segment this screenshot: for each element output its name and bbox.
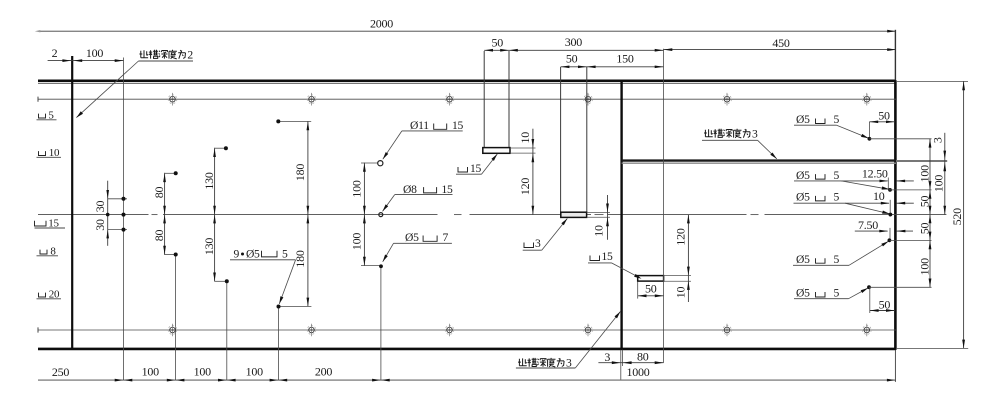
chain outer line: [944, 133, 946, 215]
svg-text:50: 50: [878, 109, 890, 123]
svg-text:15: 15: [48, 217, 59, 229]
svg-text:100: 100: [350, 233, 364, 251]
svg-text:5: 5: [254, 248, 260, 261]
hole T1 (top row): [170, 96, 176, 102]
svg-text:130: 130: [202, 172, 216, 190]
svg-text:5: 5: [834, 169, 840, 182]
dim 12.50 outside arrow: [896, 180, 914, 182]
leader R3: [845, 203, 890, 214]
hole RD tick: [889, 228, 891, 239]
svg-text:50: 50: [918, 196, 932, 208]
leader cn depth2: [76, 61, 138, 118]
note cn slot depth 3 (bottom): [518, 358, 527, 365]
leader R4: [849, 241, 889, 265]
dim 10 outside arrow: [896, 202, 913, 204]
svg-text:Ø11: Ø11: [410, 119, 429, 132]
label depth15 slot C: [590, 256, 600, 261]
hole B3 (bottom row): [447, 327, 453, 333]
horizontal centerline (dash-dot): [38, 214, 149, 216]
svg-text:250: 250: [52, 365, 70, 379]
svg-text:15: 15: [470, 162, 482, 175]
svg-text:100: 100: [918, 258, 932, 276]
dim 100/100 stubs: [361, 162, 378, 164]
leader R2: [841, 181, 889, 189]
svg-text:Ø5: Ø5: [796, 287, 810, 300]
svg-text:Ø5: Ø5: [796, 191, 810, 204]
hole B4 (bottom row): [585, 327, 591, 333]
part outline: top edge (thick): [38, 80, 896, 83]
slot B bottom bar: [561, 212, 587, 217]
note cn slot depth 2: [139, 50, 148, 57]
svg-text:15: 15: [452, 119, 464, 132]
hole RA line: [869, 138, 931, 140]
hole P8 (-180): [277, 305, 281, 309]
svg-text:150: 150: [616, 51, 634, 65]
svg-text:100: 100: [142, 365, 160, 379]
hole B6 (bottom row): [864, 327, 870, 333]
extension line x=123.5 (full height): [123, 58, 125, 381]
svg-text:Ø5: Ø5: [796, 253, 810, 266]
svg-text:2: 2: [187, 49, 193, 62]
hole T3 (top row): [447, 96, 453, 102]
svg-text:15: 15: [442, 183, 454, 196]
note cn groove depth 3 (right): [704, 129, 713, 136]
dim 30/30 stubs: [108, 198, 127, 200]
dim 50 top-right line: [869, 121, 894, 123]
svg-text:80: 80: [637, 349, 649, 363]
dim 180/180 stubs: [278, 120, 311, 122]
hole T2 (top row): [309, 96, 315, 102]
svg-text:80: 80: [152, 230, 166, 242]
svg-text:5: 5: [834, 113, 840, 126]
label depth 20: [39, 293, 46, 297]
part outline: bottom edge (thick): [38, 348, 896, 351]
right edge extension below part: [894, 350, 896, 382]
hole P7 (+180): [276, 119, 280, 123]
svg-text:5: 5: [834, 287, 840, 300]
svg-text:3: 3: [604, 350, 610, 364]
dim 120/10 slot C line: [687, 215, 689, 302]
hole RE: [867, 285, 871, 289]
dim 50 bottom-right line: [870, 310, 895, 312]
label depth 5: [39, 114, 46, 118]
hole RC: [889, 213, 893, 217]
extension line from hole col x=175.6: [175, 255, 177, 380]
svg-text:5: 5: [834, 191, 840, 204]
svg-text:15: 15: [602, 250, 614, 263]
svg-text:1000: 1000: [627, 365, 650, 379]
svg-text:100: 100: [194, 365, 212, 379]
top groove line (thin, below top edge): [38, 83, 896, 85]
hole B5 (bottom row): [724, 327, 730, 333]
svg-text:Ø: Ø: [246, 248, 254, 261]
svg-text:50: 50: [566, 51, 578, 65]
hole RD line: [890, 239, 932, 241]
leader depth15 slot C: [612, 263, 640, 278]
hole RA: [868, 137, 872, 141]
right groove (depth 3) thick horizontal: [622, 159, 896, 161]
svg-text:50: 50: [645, 282, 657, 296]
svg-text:Ø8: Ø8: [403, 183, 417, 196]
dim 2000 line: [38, 30, 896, 32]
callout O5 underline: [394, 242, 452, 244]
dim 130/130 stubs: [215, 147, 228, 149]
label depth3 slot B: [524, 243, 534, 248]
svg-text:2: 2: [52, 46, 58, 60]
slot A right edge: [508, 51, 510, 147]
bottom holes center line: [38, 329, 896, 331]
dim 100/100 line: [363, 163, 365, 266]
slot C extension lines right: [664, 275, 691, 277]
svg-text:130: 130: [202, 238, 216, 256]
callout O11 underline: [402, 130, 463, 132]
svg-text:10: 10: [873, 189, 885, 203]
svg-text:100: 100: [918, 165, 932, 183]
callout O11 leader: [383, 131, 402, 159]
extension line from hole col x=380.9: [380, 267, 382, 381]
hole RD: [888, 238, 892, 242]
svg-text:3: 3: [931, 137, 945, 143]
leader R1: [837, 125, 869, 138]
hole RB: [888, 188, 892, 192]
svg-text:50: 50: [491, 36, 503, 50]
dim 520 ext bottom: [897, 347, 968, 349]
svg-text:7: 7: [443, 231, 449, 244]
hole T4 (top row): [585, 96, 591, 102]
svg-text:Ø5: Ø5: [796, 113, 810, 126]
svg-text:Ø5: Ø5: [405, 231, 419, 244]
hole P2 (-30): [122, 228, 126, 232]
label depth 8: [40, 250, 47, 254]
leader depth15 slot A: [482, 154, 498, 174]
hole O8 circle: [379, 213, 383, 217]
leader depth3 slot B: [542, 219, 568, 251]
hole RE line: [869, 286, 932, 288]
dim 180/180 line: [307, 121, 309, 307]
svg-text:180: 180: [293, 250, 307, 268]
svg-text:50: 50: [879, 297, 891, 311]
svg-text:100: 100: [86, 46, 104, 60]
callout O8 underline: [395, 194, 453, 196]
hole T6 (top row): [864, 96, 870, 102]
hole RB tick: [887, 178, 889, 190]
part outline: right edge (thick): [894, 80, 897, 350]
dim 520 line: [963, 81, 965, 348]
slot A bottom bar: [483, 148, 510, 154]
dim 130/130 line: [214, 148, 216, 282]
top holes center line: [38, 98, 896, 100]
dim 10 slot A line: [532, 129, 534, 215]
hole RB line: [889, 189, 932, 191]
label depth15 slot A: [458, 167, 468, 172]
svg-text:2000: 2000: [370, 16, 393, 30]
svg-text:30: 30: [93, 219, 107, 231]
svg-text:3: 3: [752, 128, 758, 141]
dim 30/30 line: [107, 181, 109, 246]
hole T5 (top row): [724, 96, 730, 102]
svg-text:10: 10: [674, 287, 688, 299]
svg-text:520: 520: [950, 208, 964, 226]
svg-text:450: 450: [772, 36, 790, 50]
left slot (width 2, depth 2) thick vertical: [71, 56, 73, 348]
dim 50 bottom-right ext: [869, 288, 871, 313]
dim 10 slot B line: [607, 195, 609, 240]
slot A left edge: [483, 51, 485, 147]
slot C pocket rectangle: [638, 276, 664, 282]
callout O5 leader: [383, 243, 394, 261]
hole B1 (bottom row): [170, 327, 176, 333]
svg-text:80: 80: [152, 187, 166, 199]
leader cn groove3: [758, 140, 777, 159]
junction dot on 30-dim: [106, 213, 110, 217]
hole P3 (+80): [174, 171, 178, 175]
hole P0 (center): [122, 213, 126, 217]
hole P4 (-80): [174, 253, 178, 257]
svg-text:300: 300: [565, 35, 583, 49]
svg-text:5: 5: [834, 253, 840, 266]
svg-text:5: 5: [282, 248, 288, 261]
svg-text:30: 30: [93, 201, 107, 213]
svg-text:7.50: 7.50: [858, 218, 878, 232]
svg-text:9: 9: [234, 248, 240, 261]
hole O11 circle: [378, 161, 383, 166]
dim 7.50 shelf: [855, 230, 888, 232]
dim 520 ext top: [897, 80, 968, 82]
dim 50 slot C ext: [637, 282, 639, 299]
svg-text:180: 180: [293, 164, 307, 182]
slot B left edge: [560, 67, 562, 212]
callout O8 leader: [383, 195, 395, 212]
leader R5: [849, 288, 869, 299]
hole P5 (+130): [224, 146, 228, 150]
svg-text:120: 120: [518, 178, 532, 196]
svg-text:50: 50: [918, 223, 932, 235]
slot B bar extension lines: [587, 212, 610, 214]
extension line x=663.5 (full height): [663, 49, 665, 363]
svg-text:10: 10: [518, 132, 532, 144]
dim 50 slot C line: [638, 295, 664, 297]
hole O5 dot: [379, 264, 383, 268]
dim 50 top-right ext: [868, 122, 870, 137]
svg-text:12.50: 12.50: [862, 167, 888, 181]
bottom dim chain line: [38, 379, 896, 381]
svg-text:100: 100: [931, 175, 945, 193]
svg-text:120: 120: [674, 228, 688, 246]
hole P1 (+30): [122, 197, 126, 201]
leader cn slot3: [575, 312, 620, 369]
dim 7.50 outside arrow: [897, 230, 913, 232]
label depth 10: [39, 151, 46, 155]
svg-text:100: 100: [350, 180, 364, 198]
middle slot (width 3, depth 3) thick vertical: [620, 82, 622, 349]
svg-text:3: 3: [535, 237, 541, 250]
right groove extension beyond edge: [896, 160, 947, 162]
svg-text:10: 10: [592, 225, 606, 237]
slot B right edge: [586, 67, 588, 212]
svg-text:200: 200: [315, 365, 333, 379]
dim 80/80 line: [164, 173, 166, 255]
extension line from hole col x=278.4: [277, 307, 279, 380]
hole P6 (-130): [225, 279, 229, 283]
svg-text:100: 100: [246, 365, 264, 379]
svg-text:Ø5: Ø5: [796, 169, 810, 182]
dim 2 / 100 line: [48, 60, 124, 62]
middle slot extension lines below part: [620, 350, 622, 380]
dim row1 line 50/300/450: [484, 49, 663, 51]
chain inner line: [929, 139, 931, 287]
label depth 15: [35, 221, 47, 226]
hole B2 (bottom row): [309, 327, 315, 333]
right edge extension above part: [894, 30, 896, 80]
extension line from hole col x=226.8: [226, 282, 228, 381]
dim row2 line 50/150: [561, 66, 664, 68]
leader for 9xO5 note: [279, 260, 295, 304]
slot A bar extension lines: [510, 147, 536, 149]
dim 3/80 line: [598, 362, 663, 364]
dim 80/80 stubs: [165, 172, 178, 174]
hole RC tick: [889, 200, 891, 217]
